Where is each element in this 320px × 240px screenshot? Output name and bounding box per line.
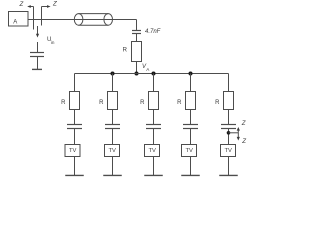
junction node branch 4 <box>189 72 193 76</box>
wire branch 4 drop <box>190 74 192 92</box>
wire branch 4 <box>190 110 192 125</box>
wire branch 1 <box>74 110 76 125</box>
wire branch 4 <box>190 129 192 145</box>
impedance Z probe arrows branch 5 <box>227 120 247 145</box>
TV box branch 1 <box>65 145 80 157</box>
wire corner down to coupling capacitor <box>136 20 138 31</box>
svg-text:Z: Z <box>19 1 24 8</box>
capacitor branch 5 <box>221 125 236 129</box>
impedance Z arrow looking right <box>42 1 58 8</box>
svg-text:R: R <box>140 100 145 106</box>
resistor R branch 5 <box>215 92 233 110</box>
TV box branch 4 <box>182 145 197 157</box>
wire branch 1 drop <box>74 74 76 92</box>
ground (source) <box>32 68 42 70</box>
amplifier A <box>9 12 29 27</box>
wire branch 1 <box>74 157 76 176</box>
reference plane bar 2 <box>41 7 43 26</box>
wire branch 5 <box>228 157 230 176</box>
capacitor branch 3 <box>146 125 161 129</box>
svg-text:Z: Z <box>241 120 246 127</box>
wire main line <box>28 19 137 21</box>
junction node branch 2 <box>111 72 115 76</box>
wire branch 3 <box>153 157 155 176</box>
svg-text:A: A <box>146 67 150 72</box>
bus wire <box>75 73 229 75</box>
ground branch 3 <box>144 174 163 176</box>
resistor R branch 4 <box>177 92 195 110</box>
svg-text:Z: Z <box>241 138 246 145</box>
svg-text:R: R <box>215 100 220 106</box>
ground branch 2 <box>103 174 122 176</box>
junction node branch 3 <box>152 72 156 76</box>
capacitor C 4.7nF <box>132 29 161 42</box>
node V_A <box>135 64 151 76</box>
wire branch 2 <box>112 157 114 176</box>
ground branch 4 <box>181 174 200 176</box>
resistor R branch 3 <box>140 92 158 110</box>
capacitor branch 1 <box>67 125 82 129</box>
capacitor branch 4 <box>183 125 198 129</box>
ground branch 5 <box>219 174 238 176</box>
resistor R branch 2 <box>99 92 117 110</box>
resistor R (series input) <box>123 42 142 62</box>
svg-text:R: R <box>99 100 104 106</box>
svg-text:Z: Z <box>52 1 57 8</box>
wire branch 5 drop <box>228 74 230 92</box>
impedance Z arrow looking left <box>19 1 34 8</box>
TV box branch 5 <box>221 145 236 157</box>
svg-text:R: R <box>61 100 66 106</box>
svg-text:4.7nF: 4.7nF <box>145 29 161 35</box>
svg-text:TV: TV <box>149 148 157 154</box>
wire from series R down to bus <box>136 62 138 74</box>
wire branch 2 <box>112 110 114 125</box>
coaxial cable <box>74 14 112 26</box>
TV box branch 3 <box>145 145 160 157</box>
reference plane bar 1 <box>33 7 35 30</box>
svg-text:R: R <box>123 48 128 54</box>
wire branch 2 <box>112 129 114 145</box>
wire branch 2 drop <box>112 74 114 92</box>
wire branch 5 <box>228 110 230 125</box>
svg-text:in: in <box>51 40 55 45</box>
wire branch 4 <box>190 157 192 176</box>
svg-text:A: A <box>13 19 17 25</box>
svg-text:TV: TV <box>225 148 233 154</box>
capacitor branch 2 <box>105 125 120 129</box>
voltage U_in arrow <box>36 26 55 45</box>
svg-text:TV: TV <box>69 148 77 154</box>
svg-text:TV: TV <box>186 148 194 154</box>
wire branch 3 <box>153 129 155 145</box>
svg-text:R: R <box>177 100 182 106</box>
resistor R branch 1 <box>61 92 79 110</box>
capacitor (source, under A) <box>30 42 44 69</box>
wire branch 3 drop <box>153 74 155 92</box>
wire branch 5 <box>228 129 230 145</box>
TV box branch 2 <box>105 145 120 157</box>
wire branch 3 <box>153 110 155 125</box>
ground branch 1 <box>65 174 84 176</box>
wire branch 1 <box>74 129 76 145</box>
svg-text:TV: TV <box>109 148 117 154</box>
